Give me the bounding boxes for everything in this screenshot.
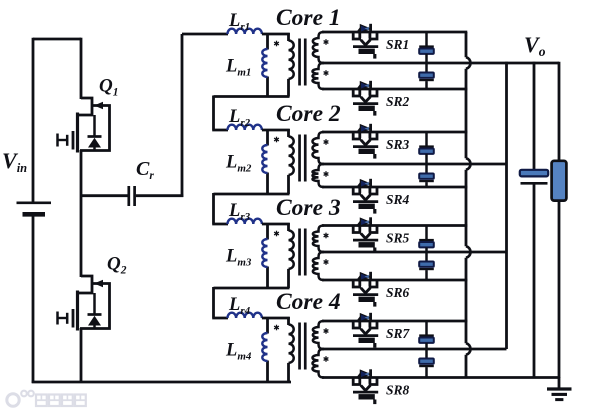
wire center tap 3: [322, 251, 507, 254]
capacitor C1a: [419, 32, 434, 63]
wire stub to Lr4: [212, 287, 228, 318]
wire center tap 1: [322, 62, 559, 65]
label SR7: [386, 326, 411, 341]
winding secondary bottom T1: [312, 63, 324, 89]
wire Lm4 branch: [266, 317, 269, 382]
wire left rail: [32, 38, 35, 202]
label Vo: [524, 32, 546, 59]
svg-text:SR4: SR4: [386, 192, 410, 207]
wire Lr3 to primary: [262, 223, 290, 226]
wire bottom bus: [32, 381, 291, 384]
svg-text:Lm4: Lm4: [225, 341, 252, 363]
inductor Lr1: [228, 29, 262, 34]
node dot secondary bottom T2: [324, 171, 329, 177]
svg-text:SR6: SR6: [386, 285, 410, 300]
svg-text:Core 4: Core 4: [276, 289, 341, 315]
svg-text:Core 3: Core 3: [276, 195, 341, 221]
svg-text:Lm2: Lm2: [225, 153, 252, 175]
wire primary bottom 2: [214, 193, 290, 196]
wire stub to Lr2: [212, 96, 228, 131]
svg-text:Vin: Vin: [2, 148, 27, 175]
capacitor C4b: [419, 349, 434, 378]
svg-text:SR2: SR2: [386, 94, 410, 109]
inductor Lm3: [262, 239, 267, 267]
svg-text:Cr: Cr: [136, 158, 154, 182]
transistor SR5: [352, 217, 379, 252]
transistor SR6: [352, 272, 379, 307]
svg-text:SR5: SR5: [386, 231, 410, 246]
wire stub to Lr3: [212, 193, 228, 224]
label Core 2: [276, 101, 341, 127]
label Lm4: [225, 341, 252, 363]
node dot secondary top T1: [324, 39, 329, 45]
svg-text:Lr1: Lr1: [228, 11, 250, 33]
wire Vo rail B: [505, 62, 508, 349]
label SR8: [386, 383, 410, 398]
label Lr4: [228, 295, 251, 317]
wire node to Cr: [81, 194, 128, 197]
wire Lm2 branch: [266, 129, 269, 194]
label SR5: [386, 231, 410, 246]
inductor Lr3: [228, 219, 262, 224]
winding secondary top T2: [312, 132, 324, 164]
winding secondary top T1: [313, 32, 324, 63]
transistor Q2: [58, 276, 110, 331]
label SR6: [386, 285, 410, 300]
wire Lr1 to primary: [262, 33, 290, 36]
wire Q1 drain: [80, 38, 83, 99]
core bars T1: [298, 39, 306, 86]
label Core 1: [276, 5, 341, 31]
inductor Lm2: [262, 145, 267, 173]
capacitor C1b: [419, 63, 434, 89]
transistor Q1: [58, 98, 110, 153]
svg-text:Core 1: Core 1: [276, 5, 341, 31]
label SR1: [386, 37, 409, 52]
wire Lr2 to primary: [262, 129, 290, 132]
capacitor C2b: [419, 164, 434, 187]
node dot secondary bottom T3: [324, 259, 329, 265]
svg-text:Lr3: Lr3: [228, 201, 251, 223]
wire Lr4 to primary: [262, 317, 290, 320]
label Core 3: [276, 195, 341, 221]
svg-text:Vo: Vo: [524, 32, 546, 59]
node dot primary T3: [274, 231, 279, 237]
wire Cr to chain: [136, 194, 183, 197]
transistor SR8: [352, 369, 379, 404]
winding primary T1: [289, 33, 294, 97]
svg-text:Lm1: Lm1: [225, 57, 251, 79]
inductor Lr2: [228, 125, 262, 130]
wire SR7 rail: [322, 320, 467, 323]
svg-text:Core 2: Core 2: [276, 101, 341, 127]
wire Vo to load: [558, 62, 561, 162]
node dot primary T1: [274, 41, 279, 47]
battery Vin: [17, 203, 52, 215]
inductor Lr4: [228, 313, 262, 318]
core bars T4: [298, 323, 306, 370]
label SR4: [386, 192, 410, 207]
wire SR6 rail: [322, 279, 467, 282]
capacitor C2a: [419, 132, 434, 164]
node dot primary T4: [274, 325, 279, 331]
transistor SR3: [352, 124, 379, 159]
node dot secondary top T4: [324, 328, 329, 334]
core bars T3: [298, 229, 306, 276]
wire Q1 source to Q2 drain: [80, 150, 83, 277]
inductor Lm4: [262, 333, 267, 361]
wire Q2 source: [80, 328, 83, 383]
ground: [547, 377, 572, 400]
inductor Lm1: [262, 49, 267, 77]
wire SR8 rail: [322, 376, 559, 379]
winding primary T2: [289, 129, 294, 194]
wire top-left: [33, 38, 81, 41]
wire SR1 rail: [322, 31, 467, 34]
winding secondary top T3: [313, 226, 324, 253]
wire primary bottom 3: [214, 287, 290, 290]
svg-text:Q1: Q1: [99, 76, 118, 99]
capacitor Co: [520, 170, 548, 184]
capacitor C3b: [419, 252, 434, 280]
svg-text:SR3: SR3: [386, 137, 410, 152]
winding primary T4: [289, 317, 294, 382]
wire cap rail upper: [533, 62, 536, 170]
label Q2: [107, 254, 127, 277]
capacitor C3a: [419, 226, 434, 253]
wire chain top: [182, 33, 228, 36]
wire center tap 4: [322, 348, 507, 351]
winding primary T3: [289, 223, 294, 288]
node dot secondary bottom T1: [324, 70, 329, 76]
label Lr3: [228, 201, 251, 223]
node dot secondary top T3: [324, 233, 329, 239]
svg-text:SR1: SR1: [386, 37, 409, 52]
capacitor Cr: [129, 186, 135, 206]
svg-text:Lr4: Lr4: [228, 295, 251, 317]
label Core 4: [276, 289, 341, 315]
winding secondary bottom T3: [313, 252, 324, 280]
wire battery to bottom: [32, 217, 35, 384]
wire Lm1 branch: [266, 33, 269, 97]
label Q1: [99, 76, 118, 99]
svg-text:Lm3: Lm3: [225, 247, 252, 269]
svg-text:SR7: SR7: [386, 326, 411, 341]
label Lr2: [228, 107, 251, 129]
wire Lm3 branch: [266, 223, 269, 288]
capacitor C4a: [419, 321, 434, 349]
label Lm2: [225, 153, 252, 175]
label Lm3: [225, 247, 252, 269]
watermark: [7, 391, 86, 406]
transistor SR4: [352, 179, 379, 214]
wire SR common rail with hops: [466, 32, 470, 378]
label SR3: [386, 137, 410, 152]
wire chain rail: [181, 34, 184, 197]
svg-text:Lr2: Lr2: [228, 107, 251, 129]
label Cr: [136, 158, 154, 182]
node dot secondary bottom T4: [324, 356, 329, 362]
label Lm1: [225, 57, 251, 79]
winding secondary top T4: [313, 321, 324, 349]
wire center tap 2: [322, 163, 507, 166]
winding secondary bottom T4: [313, 349, 325, 378]
svg-text:SR8: SR8: [386, 383, 410, 398]
wire SR4 rail: [322, 186, 467, 189]
transistor SR1: [352, 24, 379, 59]
winding secondary bottom T2: [312, 164, 324, 187]
resistor Rload: [552, 161, 567, 201]
wire SR2 rail: [322, 88, 467, 91]
node dot primary T2: [274, 137, 279, 143]
wire primary bottom 1: [214, 95, 290, 98]
label Lr1: [228, 11, 250, 33]
svg-text:Q2: Q2: [107, 254, 127, 277]
wire SR3 rail: [322, 131, 467, 134]
wire load to ground: [558, 201, 561, 379]
label SR2: [386, 94, 410, 109]
wire SR5 rail: [322, 224, 467, 227]
transistor SR7: [352, 313, 379, 348]
core bars T2: [298, 135, 306, 182]
wire cap rail lower: [533, 185, 536, 379]
transistor SR2: [352, 81, 379, 116]
label Vin: [2, 148, 27, 175]
node dot secondary top T2: [324, 139, 329, 145]
